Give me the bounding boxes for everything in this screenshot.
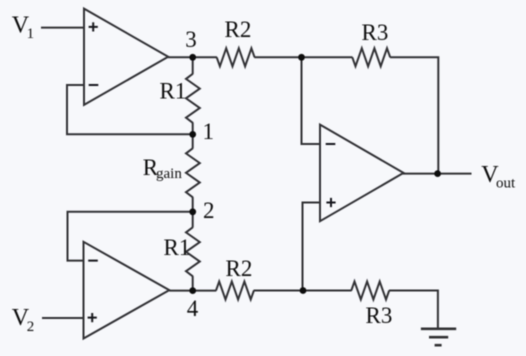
svg-text:4: 4: [187, 296, 199, 321]
svg-text:R2: R2: [225, 17, 252, 42]
svg-text:2: 2: [203, 198, 215, 223]
svg-text:gain: gain: [156, 166, 182, 182]
svg-text:1: 1: [27, 26, 34, 42]
svg-text:out: out: [496, 176, 516, 192]
svg-text:3: 3: [185, 27, 197, 52]
svg-text:2: 2: [27, 319, 35, 335]
svg-text:R2: R2: [226, 256, 253, 281]
svg-text:R1: R1: [164, 235, 191, 260]
svg-text:R3: R3: [366, 303, 393, 328]
svg-text:R3: R3: [362, 20, 389, 45]
svg-text:R1: R1: [160, 79, 187, 104]
svg-text:1: 1: [203, 119, 215, 144]
